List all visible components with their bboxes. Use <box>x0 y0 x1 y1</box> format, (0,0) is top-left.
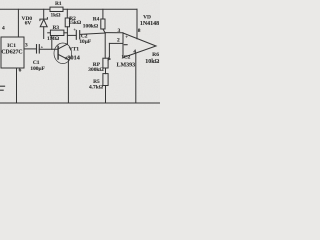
svg-text:9014: 9014 <box>67 54 79 61</box>
svg-text:6V: 6V <box>25 21 32 27</box>
svg-text:VT1: VT1 <box>69 46 79 52</box>
svg-text:R6: R6 <box>152 52 159 58</box>
wire R3 left stub <box>48 32 51 34</box>
wire op-amp pin2 input <box>109 42 123 44</box>
op-amp minus sign <box>124 44 127 46</box>
resistor R3 <box>50 30 64 35</box>
svg-text:4: 4 <box>133 49 136 55</box>
transistor VT1 circle <box>54 43 72 64</box>
battery plates left edge <box>0 85 5 87</box>
transistor VT1 collector diagonal <box>58 44 67 49</box>
wire ground bottom rail <box>0 102 160 104</box>
potentiometer RP box <box>103 58 108 68</box>
svg-text:1MΩ: 1MΩ <box>47 36 60 42</box>
svg-text:6: 6 <box>19 68 22 74</box>
op-amp IC2 (LM393) triangle <box>123 33 156 58</box>
svg-text:100μF: 100μF <box>30 66 45 72</box>
svg-text:3: 3 <box>118 28 121 34</box>
svg-text:LM393: LM393 <box>116 63 135 69</box>
svg-text:300kΩ: 300kΩ <box>88 67 104 73</box>
wire pin2 vertical (RP wiper feed) <box>108 43 110 56</box>
svg-text:CD627C: CD627C <box>1 49 22 55</box>
capacitor C1 plates <box>36 45 38 53</box>
zener diode VD0 cathode bar <box>40 18 48 21</box>
wire R2 top lead <box>66 9 68 18</box>
svg-text:IC2: IC2 <box>122 55 131 61</box>
svg-text:10kΩ: 10kΩ <box>145 59 159 65</box>
transistor VT1 emitter arrowhead <box>65 56 69 59</box>
potentiometer RP wiper arrow <box>108 57 111 59</box>
svg-text:+: + <box>125 35 128 41</box>
wire node vertical to RP <box>104 33 106 58</box>
wire C2 right lead to node <box>80 33 105 34</box>
svg-text:VD: VD <box>143 14 151 20</box>
transistor VT1 base bar <box>57 46 59 59</box>
wire pin8 drop to op-amp <box>136 9 138 39</box>
svg-text:R3: R3 <box>53 25 60 31</box>
resistor R5 <box>103 74 108 86</box>
svg-text:15kΩ: 15kΩ <box>69 20 82 26</box>
transistor VT1 emitter diagonal <box>58 55 68 60</box>
capacitor C2 plates <box>75 30 77 39</box>
wire C2 left lead <box>67 34 76 36</box>
wire IC1 pin6 to ground <box>16 68 18 103</box>
wire VDD top rail left segment <box>0 8 50 10</box>
svg-text:2: 2 <box>117 38 120 44</box>
IC IC1 (CD627C) box <box>1 37 24 68</box>
wire R4 top lead <box>102 9 104 19</box>
svg-text:1kΩ: 1kΩ <box>50 13 61 19</box>
svg-text:100kΩ: 100kΩ <box>83 24 99 30</box>
wire R5 bottom <box>105 86 107 104</box>
svg-text:4: 4 <box>2 26 5 32</box>
resistor R4 <box>101 19 105 29</box>
wire zener top <box>43 9 45 19</box>
svg-text:IC1: IC1 <box>7 43 16 49</box>
wire R4 bottom lead <box>103 29 105 33</box>
wire IC1 pin4 to rail <box>17 9 19 37</box>
wire C1 to base <box>39 48 58 50</box>
svg-text:1N4148: 1N4148 <box>140 21 159 27</box>
svg-text:R4: R4 <box>93 17 100 23</box>
zener diode VD0 triangle <box>40 19 47 26</box>
resistor R1 <box>50 7 63 11</box>
svg-text:R1: R1 <box>55 1 62 7</box>
wire zener anode stub <box>43 27 45 39</box>
resistor R2 <box>65 18 69 27</box>
wire R3 right lead <box>64 32 68 34</box>
wire emitter to ground <box>67 60 69 103</box>
svg-text:3: 3 <box>25 43 28 49</box>
svg-text:10μF: 10μF <box>79 39 91 45</box>
svg-text:4.7kΩ: 4.7kΩ <box>89 84 104 90</box>
wire R3 left drop to base node <box>51 36 53 50</box>
wire RP to R5 <box>105 68 107 74</box>
svg-text:8: 8 <box>138 28 141 34</box>
wire IC1 pin3 <box>24 48 36 50</box>
wire op-amp pin3 input <box>105 32 123 34</box>
wire collector vertical <box>66 27 68 44</box>
wire VDD top rail right segment <box>63 8 137 10</box>
wire IC2 pin4 to ground <box>135 53 137 103</box>
